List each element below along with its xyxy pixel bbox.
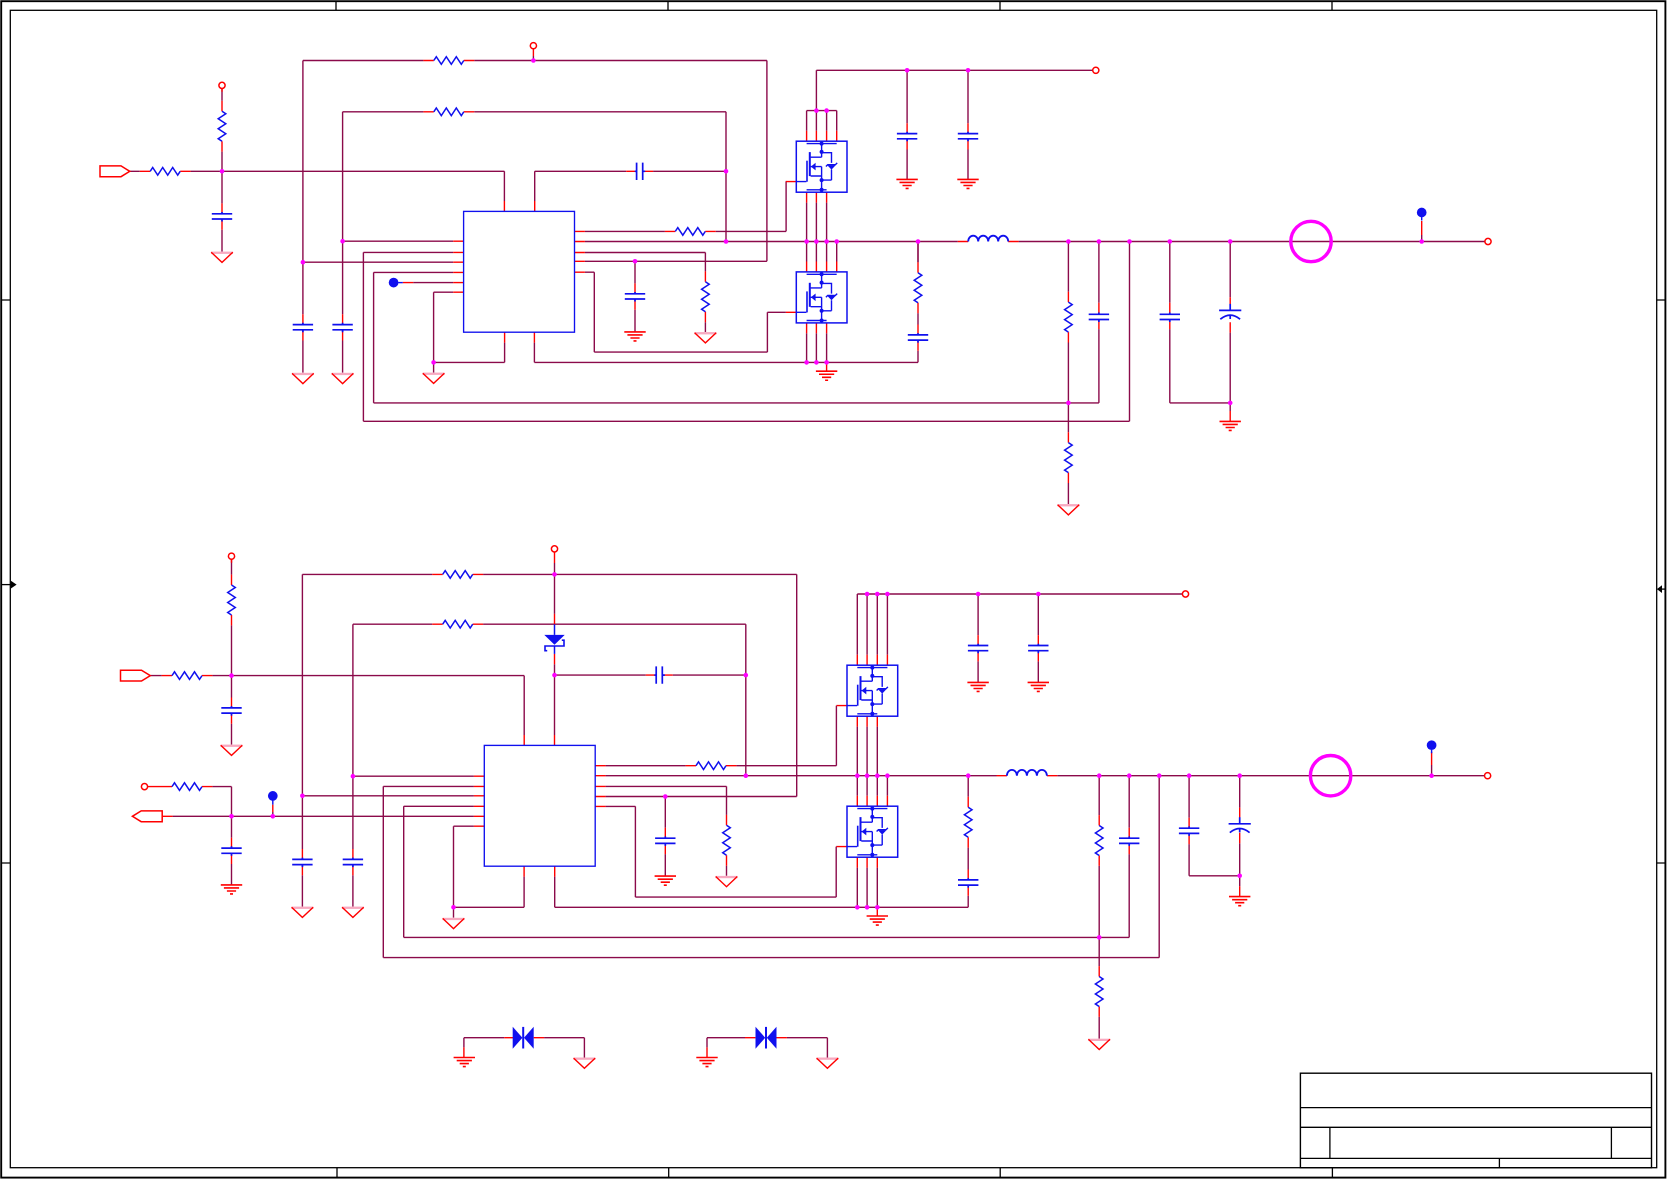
capacitor C22 output B (1179, 826, 1199, 836)
wire output electrolytic branch (1229, 242, 1231, 412)
wire switch node rail B (606, 775, 1485, 777)
junction dots bottom channel (229, 572, 1434, 940)
ground D2 right (573, 1058, 595, 1069)
capacitor C17 out node B (221, 846, 241, 856)
wire output cap branch 3 (1170, 242, 1230, 403)
capacitor C13 feed-forward B (654, 666, 664, 683)
resistor R11 pull-up B (228, 585, 236, 615)
capacitor C4 (293, 323, 313, 333)
wire VIN rail B (857, 594, 1182, 655)
terminal aux input B (141, 784, 147, 790)
wire input port B to node (150, 675, 231, 677)
ground bus earth B (867, 916, 888, 925)
wire VREF pull-up net (221, 88, 223, 171)
terminal VCC top (530, 43, 536, 49)
ground C7 (896, 179, 917, 188)
wire VREF pull-up net B (231, 559, 233, 676)
pin stubs (red) top channel (140, 49, 1422, 484)
test point TP1 (389, 278, 403, 288)
wire supply loop (top) (303, 56, 767, 373)
wire MOSFET interconnect verticals (807, 203, 837, 363)
wire ground bus under MOSFETs B (555, 776, 969, 908)
wire boot loop B (353, 624, 746, 906)
resistor R3 boot loop (434, 108, 464, 116)
wire cap under out node B (231, 816, 233, 884)
ground C11 (1220, 421, 1241, 430)
title block (1300, 1073, 1651, 1168)
wire input node to filter cap and ground (221, 171, 223, 251)
port P3 output B (132, 811, 162, 822)
ground pgnd tie (423, 373, 445, 384)
test point TP3 B (268, 791, 278, 805)
ground D3 right (816, 1058, 838, 1069)
resistor R14 aux B (172, 783, 202, 791)
resistor R4 supply loop (434, 57, 464, 65)
terminal VCC B (551, 546, 557, 552)
capacitor C3 (332, 323, 352, 333)
capacitor C8 VIN (958, 132, 978, 142)
wire feed-forward cap B (555, 624, 746, 776)
wire switch node rail (585, 241, 1485, 243)
wire output test point (1421, 235, 1423, 242)
capacitor C19 VIN B (968, 644, 988, 654)
ground C20 (1028, 682, 1049, 691)
wire output cap branch 2 (1068, 242, 1099, 403)
capacitor C12 input filter B (221, 706, 241, 716)
ground R19 (1088, 1039, 1110, 1050)
terminal VREF (219, 82, 225, 88)
wire feedback sense (363, 242, 1129, 422)
wire input node B to IC top pin (232, 676, 525, 735)
IC U1 controller (464, 211, 575, 332)
wire soft-start resistor drop B (606, 786, 727, 876)
capacitor C5 bypass (625, 292, 645, 302)
test point TP2 output (1417, 208, 1427, 221)
capacitor C11 output electrolytic (1219, 304, 1241, 319)
wire bypass cap at pin node (634, 261, 636, 332)
wire comp divider run B (404, 806, 1099, 937)
wire ground bus under MOSFETs (534, 242, 918, 363)
wire high-side gate drive (585, 181, 786, 231)
test point TP4 output B (1427, 740, 1437, 753)
ground C16 (655, 876, 676, 885)
wire power ground tie B (454, 826, 525, 918)
wire output cap branch 2 B (1099, 776, 1129, 938)
wire input node B to filter cap (231, 676, 233, 745)
resistor R18 divider upper B (1095, 826, 1103, 856)
TVS diode D3 (756, 1027, 777, 1049)
resistor R10 input series B (172, 672, 202, 680)
resistor R1 input series (150, 168, 180, 176)
capacitor C1 input filter (212, 212, 232, 222)
ground bus earth (816, 371, 837, 380)
wire output test point B (1431, 765, 1433, 776)
zener D1 (544, 624, 564, 654)
wire VIN decoupling caps B (978, 594, 1038, 682)
ground C19 (967, 682, 988, 691)
resistor R17 snubber B (964, 807, 972, 837)
wire terminal stub B supply (554, 552, 556, 563)
resistor R7 snubber (914, 273, 922, 303)
wire supply loop B (302, 563, 796, 907)
capacitor C23 output electrolytic B (1229, 817, 1251, 832)
ground C12 (221, 745, 243, 756)
wire snubber branch (917, 242, 919, 263)
MOSFET Q3 high-side B (837, 655, 898, 727)
wire feedback sense B (383, 776, 1159, 958)
wire low-side gate drive (585, 272, 786, 352)
current probe top (1291, 221, 1331, 261)
wire test point lead (413, 282, 453, 284)
wire high-side gate drive B (606, 706, 837, 766)
wire comp divider run (374, 272, 1069, 403)
capacitor C21 output B (1119, 836, 1139, 846)
terminal VOUT top (1485, 238, 1491, 244)
wire bypass cap at pin node B (664, 797, 666, 877)
resistor R19 divider lower B (1095, 977, 1103, 1007)
terminal VIN B (1182, 591, 1188, 597)
ground D2 left (454, 1058, 475, 1067)
MOSFET Q4 low-side B (837, 796, 898, 868)
port P1 input (100, 166, 130, 177)
wire VIN rail (top) (807, 70, 1093, 131)
ground C17 (221, 885, 242, 894)
capacitor C14 (343, 858, 363, 868)
wire output electrolytic branch B (1239, 776, 1241, 887)
wire output divider branch 1 B (1098, 776, 1100, 1039)
wire MOSFET interconnect verticals B (857, 727, 887, 908)
resistor R5 gate (675, 228, 705, 236)
inductor L1 (968, 236, 1008, 242)
ground R16 (716, 876, 738, 887)
capacitor C16 bypass B (655, 836, 675, 846)
ground D3 left (696, 1058, 717, 1067)
wire low-side gate drive B (606, 806, 837, 897)
wire TVS1 branch (464, 1038, 585, 1058)
terminal VIN top (1093, 67, 1099, 73)
capacitor C9 output (1089, 313, 1109, 323)
capacitor C15 (292, 858, 312, 868)
wire input port to node (130, 170, 222, 172)
resistor R13 supply loop B (443, 571, 473, 579)
junction dots top channel (220, 58, 1424, 405)
resistor R12 boot loop B (443, 620, 473, 628)
resistor R8 divider upper (1065, 302, 1073, 332)
capacitor C6 snubber (908, 333, 928, 343)
ground C4 (292, 373, 314, 384)
pin stubs (red) bottom channel (147, 559, 1431, 1057)
resistor R16 soft-start B (723, 825, 731, 855)
resistor R6 soft-start (702, 282, 710, 312)
ground pgnd tie B (443, 918, 465, 929)
ground C5 (624, 332, 645, 341)
capacitor C20 VIN B (1028, 644, 1048, 654)
ground C3 (332, 373, 354, 384)
current probe bottom (1310, 756, 1350, 796)
wire boot loop (upper) (343, 112, 726, 373)
ground C8 (957, 179, 978, 188)
border left mid arrow (1, 581, 16, 589)
capacitor C18 snubber B (958, 878, 978, 888)
border right mid arrow (1657, 585, 1666, 593)
wire TVS2 branch (707, 1038, 827, 1058)
terminal VREF B (228, 553, 234, 559)
inductor L2 (1007, 770, 1047, 776)
wire output divider branch 1 (1067, 242, 1069, 505)
ground R6 (694, 332, 716, 343)
ground C14 (342, 907, 364, 918)
wire VIN decoupling caps (907, 70, 968, 179)
capacitor C2 feed-forward (635, 163, 645, 180)
ground R9 (1057, 504, 1079, 515)
ground input filter (211, 252, 233, 263)
capacitor C7 VIN (897, 132, 917, 142)
IC U2 controller (484, 745, 595, 866)
wire input node to IC top pins and feed-forward cap (222, 112, 726, 242)
MOSFET Q1 high-side (786, 131, 847, 203)
port P2 input B (121, 670, 151, 681)
wire power ground tie (434, 292, 505, 372)
MOSFET Q2 low-side (786, 262, 847, 334)
wire output cap branch 3 B (1189, 776, 1240, 876)
wire zener branch (554, 574, 556, 735)
ground C15 (291, 907, 313, 918)
ground C23 (1229, 897, 1250, 906)
resistor R15 gate B (696, 762, 726, 770)
TVS diode D2 (513, 1027, 534, 1049)
wire soft-start resistor drop (585, 253, 706, 333)
wire output port B net (173, 787, 474, 817)
resistor R9 divider lower (1065, 443, 1073, 473)
capacitor C10 output (1160, 313, 1180, 323)
terminal VOUT B (1485, 773, 1491, 779)
resistor R2 pull-up (218, 111, 226, 141)
